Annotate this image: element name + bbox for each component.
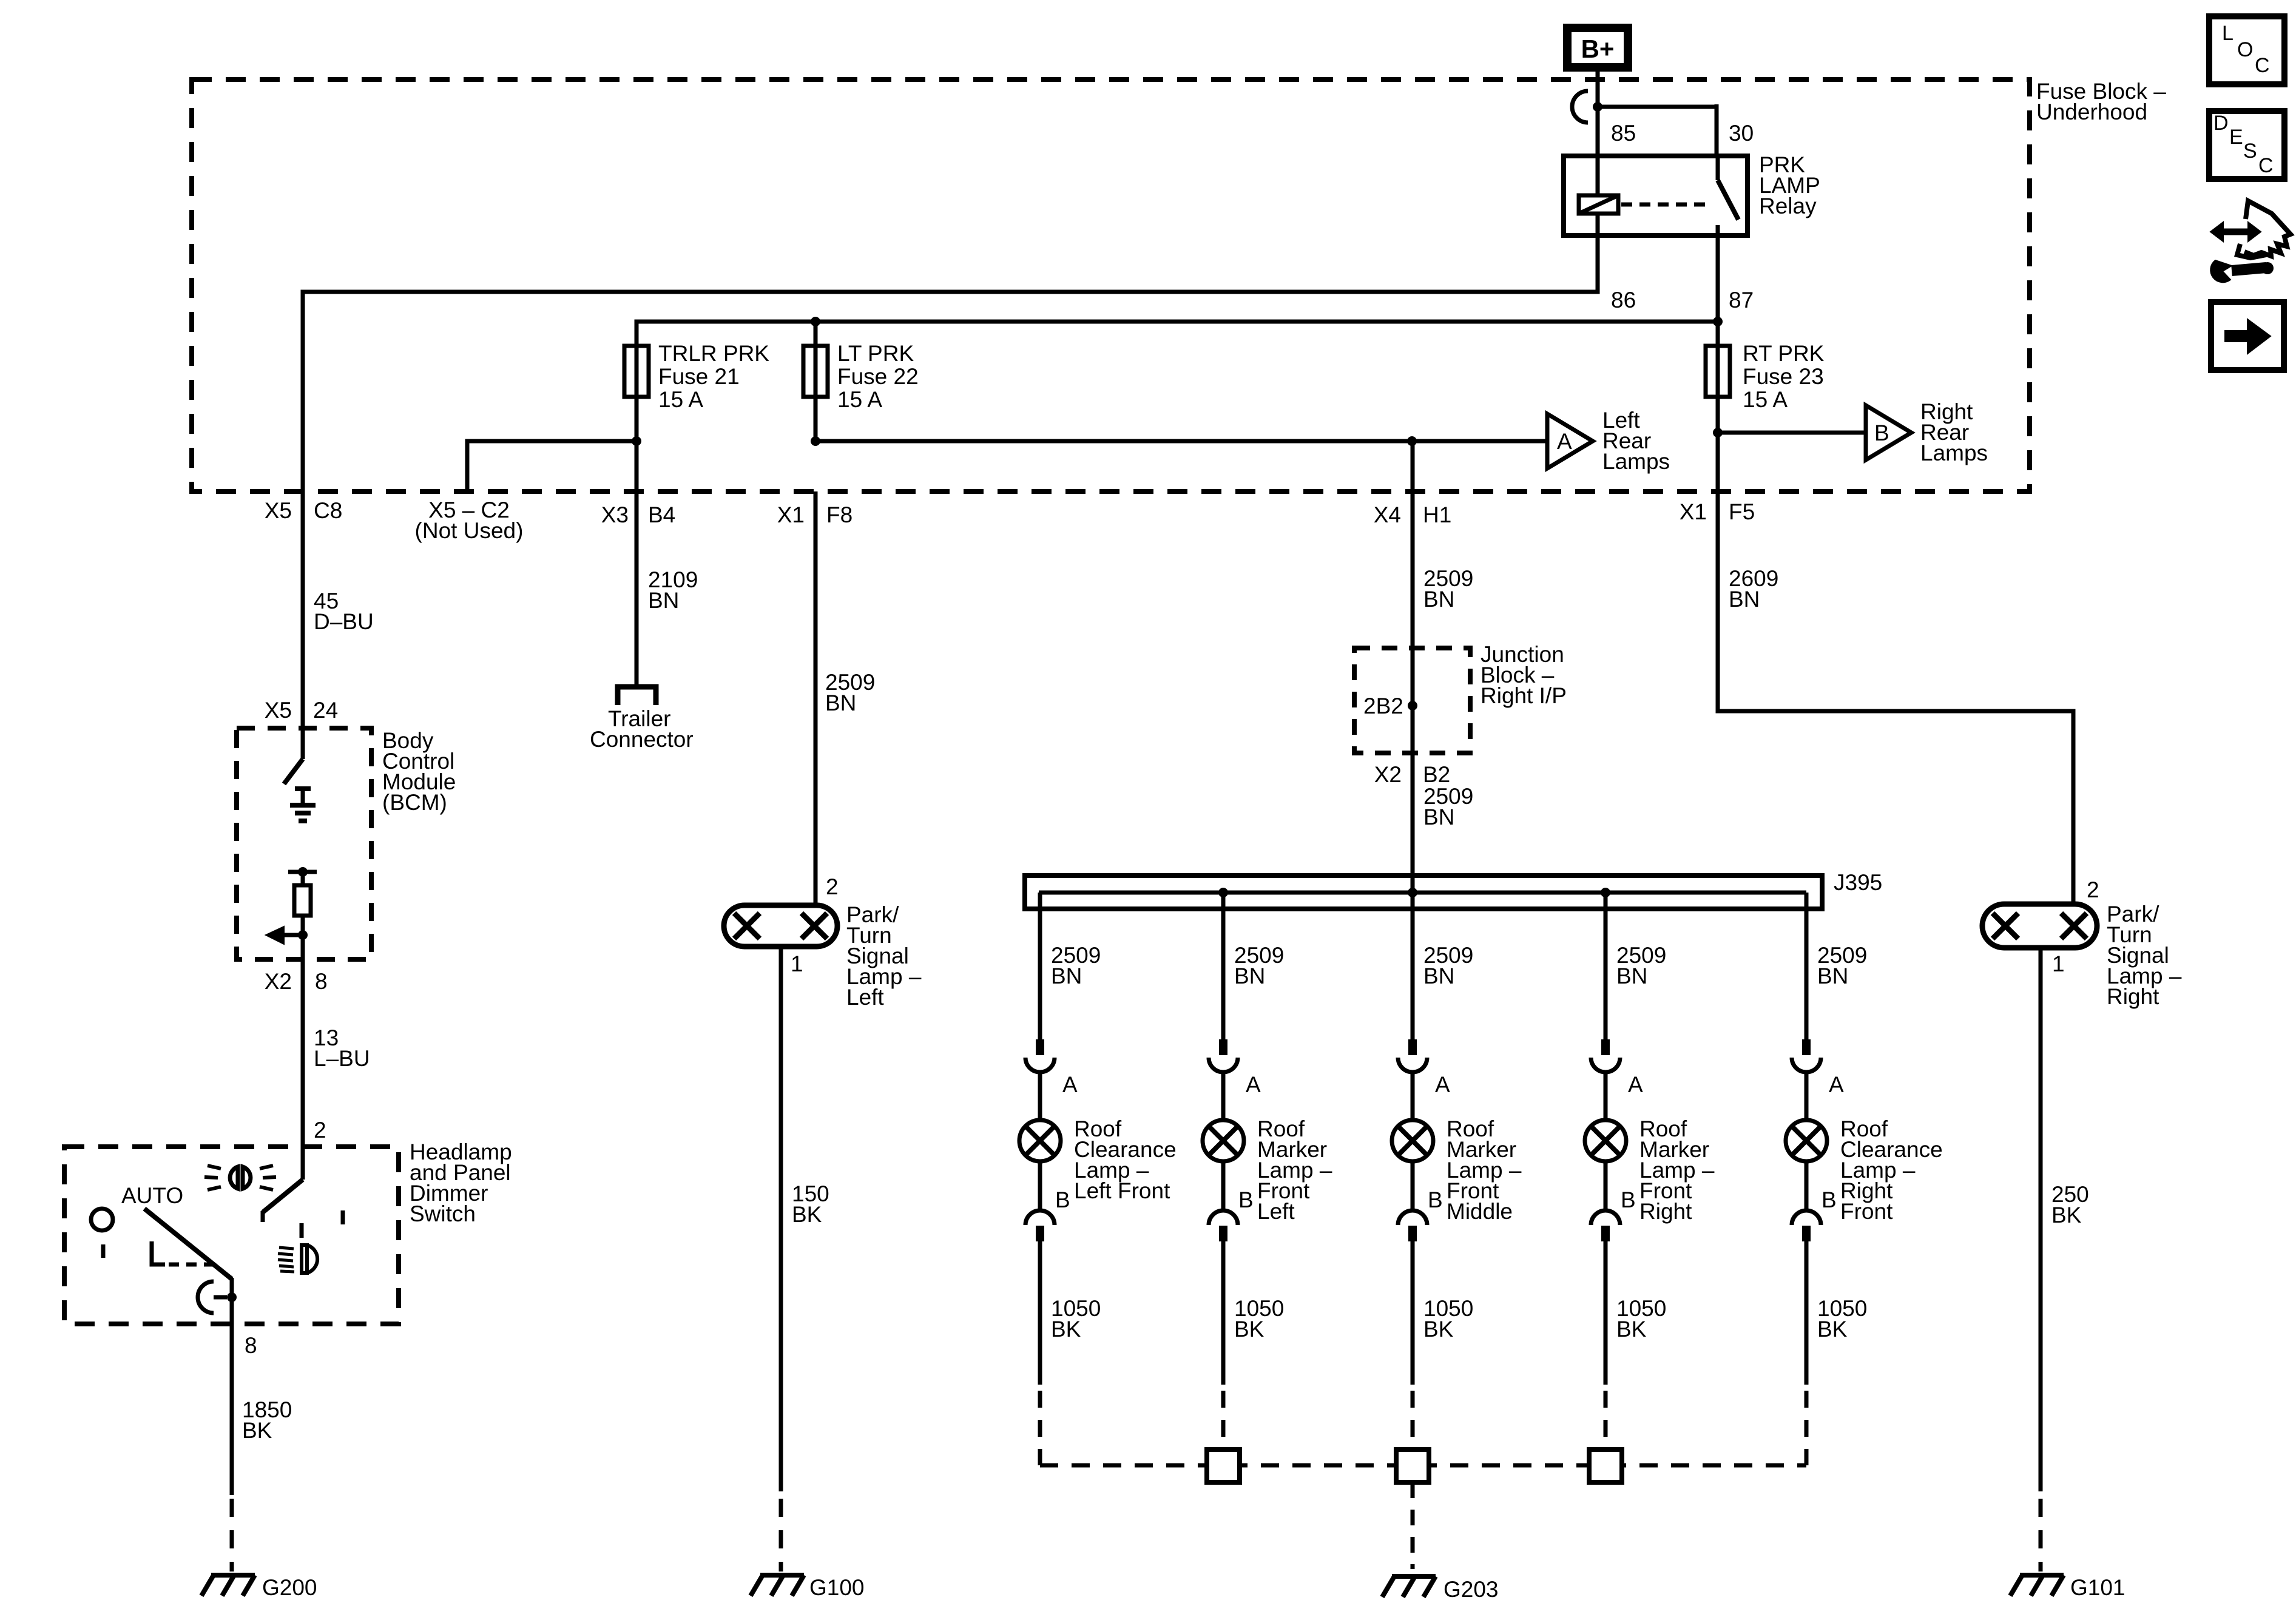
svg-text:87: 87: [1729, 288, 1754, 312]
ground G200: [211, 1573, 255, 1578]
svg-text:X5: X5: [265, 698, 292, 723]
connector B front middle: [1398, 1210, 1427, 1225]
wire fuse23 to right rear lamps: [1716, 397, 1720, 494]
splice square 2: [1396, 1450, 1429, 1482]
fuse LT PRK Fuse 22 15 A: [814, 345, 818, 398]
connector A right front: [1802, 1039, 1811, 1055]
low beam icon: [300, 1223, 304, 1238]
roof lamp front right: [1585, 1120, 1626, 1161]
svg-text:LT PRK: LT PRK: [837, 341, 914, 366]
relay switch blade: [1716, 156, 1720, 180]
wire lamp to connector B front left: [1221, 1161, 1226, 1210]
svg-text:X2: X2: [265, 969, 292, 994]
wire 45 D-BU to BCM: [301, 491, 305, 731]
svg-text:X5: X5: [265, 498, 292, 523]
svg-text:15 A: 15 A: [1743, 387, 1788, 412]
ground bus dashed: [1040, 1463, 1806, 1468]
ground G203: [1392, 1574, 1436, 1579]
svg-text:BK: BK: [1423, 1317, 1454, 1342]
svg-text:B2: B2: [1423, 762, 1450, 787]
svg-text:24: 24: [313, 698, 338, 723]
wire connector A to lamp front right: [1604, 1072, 1608, 1120]
service icon outline: [2244, 201, 2291, 256]
svg-text:1: 1: [791, 951, 803, 976]
svg-text:1: 1: [2052, 951, 2065, 976]
wire lamp feed right front: [1805, 893, 1809, 1039]
svg-text:2: 2: [826, 874, 839, 899]
svg-text:A: A: [1062, 1072, 1078, 1097]
svg-text:F8: F8: [826, 502, 853, 527]
svg-text:2B2: 2B2: [1363, 694, 1403, 718]
svg-text:X2: X2: [1374, 762, 1402, 787]
body control module BCM dashed box: [237, 728, 371, 959]
svg-text:L: L: [2222, 22, 2234, 45]
connector B front left: [1209, 1210, 1238, 1225]
wire lamp to connector B front middle: [1411, 1161, 1415, 1210]
roof lamp front left: [1203, 1120, 1244, 1161]
ground G101: [2020, 1573, 2064, 1578]
svg-text:B: B: [1055, 1187, 1070, 1212]
wire 250 BK to G101: [2039, 948, 2043, 1491]
wire 2609 BN to right park lamp: [1718, 491, 2073, 904]
splice square 3: [1589, 1450, 1622, 1482]
svg-text:15 A: 15 A: [837, 387, 882, 412]
junction bus J395: [1025, 876, 1822, 909]
svg-text:BN: BN: [1423, 964, 1454, 988]
svg-text:Fuse 23: Fuse 23: [1743, 364, 1824, 389]
svg-text:BK: BK: [242, 1418, 272, 1443]
svg-text:BK: BK: [1234, 1317, 1264, 1342]
svg-text:X4: X4: [1374, 502, 1401, 527]
svg-text:B4: B4: [648, 502, 675, 527]
wire B+ to relay: [1596, 69, 1600, 158]
svg-text:BN: BN: [648, 588, 679, 613]
headlamp and panel dimmer switch dashed box: [64, 1147, 399, 1324]
triangle A left rear lamps: [1547, 414, 1593, 468]
svg-text:Relay: Relay: [1759, 194, 1817, 218]
ground G100: [760, 1573, 804, 1578]
svg-text:Middle: Middle: [1447, 1199, 1513, 1224]
svg-text:A: A: [1557, 429, 1572, 454]
wire fuse22 to left rear lamps: [814, 397, 818, 441]
wire pin 87 down: [1716, 235, 1720, 346]
wire 2109 BN: [635, 491, 639, 686]
node junction at relay pin 85 feed: [1593, 102, 1602, 112]
svg-text:RT PRK: RT PRK: [1743, 341, 1825, 366]
svg-text:A: A: [1829, 1072, 1844, 1097]
wire lamp feed left front: [1038, 893, 1042, 1039]
svg-text:BN: BN: [1729, 587, 1760, 612]
svg-text:BN: BN: [1051, 964, 1082, 988]
connector B front right: [1591, 1210, 1620, 1225]
svg-text:A: A: [1435, 1072, 1450, 1097]
park/turn signal lamp left: [724, 905, 837, 947]
triangle B right rear lamps: [1866, 405, 1911, 460]
svg-text:A: A: [1246, 1072, 1261, 1097]
svg-text:BN: BN: [1817, 964, 1848, 988]
wire lamp to connector B left front: [1038, 1161, 1042, 1210]
svg-text:2: 2: [2087, 877, 2099, 902]
svg-text:BK: BK: [792, 1202, 822, 1227]
relay coil: [1596, 156, 1600, 195]
battery feed B+: [1567, 28, 1628, 67]
svg-text:BN: BN: [1234, 964, 1265, 988]
svg-text:TRLR PRK: TRLR PRK: [658, 341, 769, 366]
wire 150 BK to G100: [779, 947, 783, 1491]
svg-text:8: 8: [315, 969, 328, 994]
svg-text:X1: X1: [777, 502, 805, 527]
svg-text:L–BU: L–BU: [314, 1046, 370, 1071]
svg-text:D: D: [2213, 112, 2229, 135]
wire lamp to connector B front right: [1604, 1161, 1608, 1210]
svg-text:AUTO: AUTO: [121, 1183, 183, 1208]
svg-text:BK: BK: [2051, 1203, 2082, 1227]
svg-text:15 A: 15 A: [658, 387, 703, 412]
svg-text:B+: B+: [1581, 35, 1615, 63]
svg-text:Switch: Switch: [410, 1201, 476, 1226]
svg-text:Connector: Connector: [590, 727, 694, 752]
relay linkage dashes: [1621, 203, 1706, 207]
svg-text:H1: H1: [1423, 502, 1451, 527]
svg-text:Left: Left: [1257, 1199, 1295, 1224]
svg-text:Left Front: Left Front: [1074, 1178, 1170, 1203]
svg-text:G203: G203: [1443, 1577, 1499, 1602]
svg-text:B: B: [1874, 420, 1889, 445]
junction block right I/P dashed box: [1354, 648, 1470, 753]
service icon wrench: [2232, 268, 2266, 271]
svg-text:Fuse 22: Fuse 22: [837, 364, 919, 389]
svg-text:Left: Left: [846, 985, 884, 1010]
roof lamp front middle: [1392, 1120, 1433, 1161]
forward arrow icon box: [2211, 302, 2284, 370]
BCM sensing resistor: [288, 870, 317, 874]
wire 1050 BK left front: [1038, 1241, 1042, 1385]
wire 1850 BK to G200: [230, 1324, 234, 1495]
wire connector A to lamp front left: [1221, 1072, 1226, 1120]
park/turn signal lamp right: [1982, 904, 2097, 948]
connector A front left: [1219, 1039, 1227, 1055]
svg-text:Underhood: Underhood: [2036, 100, 2147, 124]
svg-text:G200: G200: [262, 1575, 317, 1600]
trailer connector: [618, 687, 656, 705]
wire 1050 BK front left: [1221, 1241, 1226, 1385]
connector A front right: [1601, 1039, 1610, 1055]
svg-text:D–BU: D–BU: [314, 609, 374, 634]
wire 2509 BN to left park lamp: [814, 491, 818, 905]
BCM output arrow: [284, 933, 303, 937]
connector symbol on B+ feed: [1572, 91, 1588, 123]
svg-text:F5: F5: [1729, 499, 1755, 524]
svg-text:J395: J395: [1834, 870, 1882, 895]
svg-text:C: C: [2255, 54, 2270, 77]
svg-text:BN: BN: [825, 690, 856, 715]
BCM internal ground: [295, 786, 311, 791]
wire lamp to connector B right front: [1805, 1161, 1809, 1210]
svg-text:B: B: [1822, 1187, 1837, 1212]
wire 2509 BN to J395: [1411, 753, 1415, 893]
wire 1050 BK front middle: [1411, 1241, 1415, 1385]
right contact dash: [341, 1210, 345, 1224]
svg-text:30: 30: [1729, 121, 1754, 146]
BCM switch blade: [301, 728, 305, 759]
svg-text:S: S: [2243, 140, 2257, 163]
wire connector A to lamp front middle: [1411, 1072, 1415, 1120]
svg-text:X1: X1: [1680, 499, 1707, 524]
svg-text:Right: Right: [2107, 984, 2159, 1009]
head position blade from pin 2: [263, 1180, 303, 1212]
connector B left front: [1025, 1210, 1055, 1225]
connector A left front: [1036, 1039, 1044, 1055]
svg-text:B: B: [1621, 1187, 1636, 1212]
mechanical link: [152, 1241, 165, 1264]
wire pin 86 to fuse block left: [303, 235, 1598, 494]
svg-text:BK: BK: [1051, 1317, 1081, 1342]
svg-text:Fuse 21: Fuse 21: [658, 364, 740, 389]
headlamp icon: [230, 1167, 238, 1189]
svg-text:86: 86: [1611, 288, 1636, 312]
svg-text:X3: X3: [601, 502, 629, 527]
svg-text:C: C: [2258, 154, 2274, 177]
auto switch blade: [144, 1209, 232, 1279]
svg-text:O: O: [2237, 38, 2253, 61]
svg-text:G100: G100: [809, 1575, 865, 1600]
svg-text:BN: BN: [1616, 964, 1647, 988]
connector B right front: [1792, 1210, 1821, 1225]
svg-text:E: E: [2229, 126, 2243, 149]
roof lamp left front: [1019, 1120, 1061, 1161]
svg-text:Lamps: Lamps: [1602, 449, 1670, 474]
wire connector A to lamp left front: [1038, 1072, 1042, 1120]
svg-text:BN: BN: [1423, 805, 1454, 829]
fuse TRLR PRK Fuse 21 15 A: [635, 345, 639, 398]
svg-text:8: 8: [245, 1333, 257, 1358]
svg-text:(Not Used): (Not Used): [415, 518, 524, 543]
svg-text:BK: BK: [1817, 1317, 1848, 1342]
svg-text:B: B: [1238, 1187, 1254, 1212]
wire 1050 BK right front: [1805, 1241, 1809, 1385]
svg-text:2: 2: [314, 1118, 326, 1143]
wire lamp feed front middle: [1411, 893, 1415, 1039]
wire to G203: [1411, 1482, 1415, 1569]
splice square 1: [1207, 1450, 1240, 1482]
fuse block underhood dashed box: [192, 79, 2030, 491]
wire junction to pin 30: [1598, 105, 1717, 109]
wire 2509 BN from H1: [1411, 441, 1415, 650]
bus from relay 87 to fuses: [636, 322, 1718, 346]
svg-text:B: B: [1428, 1187, 1443, 1212]
svg-text:G101: G101: [2070, 1575, 2125, 1600]
DESC icon box: [2209, 111, 2284, 179]
wire 1050 BK front right: [1604, 1241, 1608, 1385]
wire connector A to lamp right front: [1805, 1072, 1809, 1120]
svg-text:(BCM): (BCM): [382, 790, 447, 815]
svg-text:Right: Right: [1639, 1199, 1692, 1224]
fuse RT PRK Fuse 23 15 A: [1716, 345, 1720, 398]
svg-text:BN: BN: [1423, 587, 1454, 612]
svg-text:Lamps: Lamps: [1920, 441, 1988, 465]
wiper connector arc: [198, 1281, 214, 1313]
relay PRK LAMP Relay: [1564, 156, 1747, 235]
svg-text:BK: BK: [1616, 1317, 1647, 1342]
wire 13 L-BU: [301, 959, 305, 1180]
svg-text:Front: Front: [1840, 1199, 1893, 1224]
svg-text:85: 85: [1611, 121, 1636, 146]
svg-text:C8: C8: [314, 498, 342, 523]
roof lamp right front: [1786, 1120, 1827, 1161]
connector A front middle: [1408, 1039, 1417, 1055]
svg-text:Right I/P: Right I/P: [1481, 683, 1567, 708]
service icon double arrow: [2222, 229, 2249, 235]
LOC icon box: [2209, 16, 2284, 84]
wire X5-C2 stub: [467, 441, 636, 494]
wire lamp feed front left: [1221, 893, 1226, 1039]
wire lamp feed front right: [1604, 893, 1608, 1039]
svg-text:A: A: [1628, 1072, 1643, 1097]
node 2B2 junction: [1408, 701, 1417, 711]
